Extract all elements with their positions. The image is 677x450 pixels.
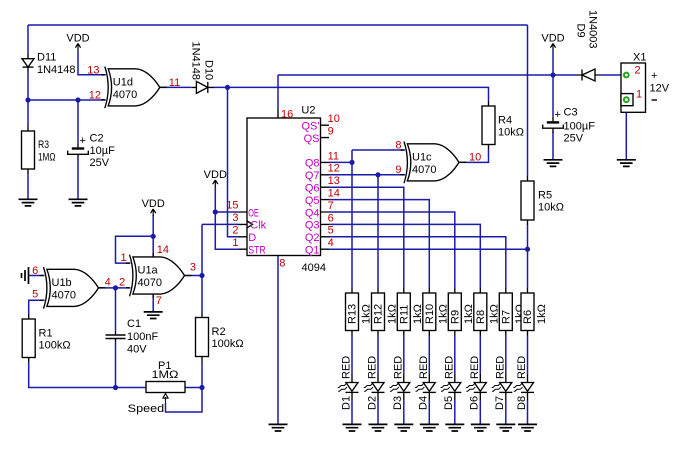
LED D7	[492, 374, 513, 400]
D5 labels	[443, 356, 455, 410]
svg-text:14: 14	[328, 188, 340, 200]
wire Q4 to R9	[329, 212, 455, 288]
D8 labels	[516, 356, 528, 410]
wire feedback to U2 pin D	[228, 87, 239, 236]
wire D5 to ground	[454, 400, 456, 425]
wire OE branch	[215, 211, 238, 213]
svg-text:QS: QS	[304, 133, 320, 145]
svg-text:D6: D6	[469, 396, 481, 410]
VDD symbol top-left	[66, 33, 89, 51]
wire VDD rail	[278, 74, 577, 76]
ground X1	[617, 160, 636, 167]
wire Q1 row	[329, 248, 528, 250]
svg-text:8: 8	[395, 139, 401, 151]
svg-text:U1a: U1a	[138, 265, 159, 277]
resistor R7	[499, 288, 512, 336]
ground D8	[518, 424, 537, 431]
wire R8 to D6	[479, 336, 481, 375]
wire R4 to U1c output	[460, 150, 489, 163]
LED D8	[513, 374, 534, 400]
wire Q3 to R8	[329, 224, 480, 288]
svg-text:12: 12	[89, 89, 101, 101]
wire C2 to ground	[77, 159, 79, 200]
wire Q7 row to U1c pin9	[329, 174, 405, 176]
svg-text:RED: RED	[367, 356, 379, 379]
svg-text:15: 15	[226, 200, 238, 212]
svg-text:100kΩ: 100kΩ	[39, 339, 71, 351]
op-amp U1c XOR gate	[400, 142, 466, 184]
svg-text:1: 1	[120, 252, 126, 264]
svg-text:13: 13	[328, 175, 340, 187]
svg-text:R13: R13	[347, 304, 359, 324]
svg-text:Q6: Q6	[305, 183, 320, 195]
D1 labels	[340, 356, 352, 410]
svg-text:Q1: Q1	[305, 245, 320, 257]
svg-text:1: 1	[232, 237, 238, 249]
wire P1 wiper link	[166, 388, 203, 413]
svg-text:RED: RED	[341, 356, 353, 379]
svg-text:25V: 25V	[90, 157, 110, 169]
svg-text:4070: 4070	[138, 277, 162, 289]
junction	[225, 85, 230, 90]
svg-text:RED: RED	[443, 356, 455, 379]
svg-text:D2: D2	[366, 396, 378, 410]
wire VDD to U1a pin14	[152, 215, 154, 257]
P1 labels	[152, 360, 179, 381]
svg-text:C2: C2	[90, 132, 104, 144]
diode D10	[191, 81, 213, 93]
resistor R10	[423, 288, 436, 336]
R5 labels	[538, 190, 564, 214]
wire VDD to U1d pin13	[78, 51, 106, 75]
svg-text:Q2: Q2	[305, 232, 320, 244]
svg-text:+: +	[651, 70, 657, 82]
svg-text:100nF: 100nF	[127, 331, 158, 343]
svg-text:C1: C1	[127, 318, 141, 330]
svg-text:D8: D8	[516, 396, 528, 410]
wire pin12 row to U1d	[28, 99, 106, 101]
R3 labels	[38, 139, 56, 163]
junction	[375, 172, 380, 177]
svg-text:16: 16	[281, 108, 293, 120]
D6 labels	[469, 356, 481, 410]
wire Clk row	[202, 223, 239, 225]
junction	[349, 160, 354, 165]
svg-text:Q7: Q7	[305, 170, 320, 182]
wire D6 to ground	[479, 400, 481, 425]
svg-text:1N4148: 1N4148	[37, 64, 76, 76]
wire Q2 to R7	[329, 237, 506, 288]
svg-text:R7: R7	[501, 310, 513, 324]
junction	[213, 209, 218, 214]
wire Q8 row	[329, 161, 352, 163]
R13 labels	[347, 304, 373, 324]
R7 labels	[501, 304, 527, 324]
svg-text:100µF: 100µF	[564, 120, 596, 132]
D2 labels	[366, 356, 378, 410]
resistor R5	[521, 176, 534, 225]
svg-text:4: 4	[105, 277, 111, 289]
svg-text:STR: STR	[248, 245, 266, 257]
svg-text:R1: R1	[39, 327, 53, 339]
wire to U1a pin1	[116, 236, 154, 263]
junction	[550, 72, 555, 77]
ground R3	[19, 199, 38, 206]
svg-text:9: 9	[395, 164, 401, 176]
svg-text:D9: D9	[575, 24, 587, 38]
svg-text:100kΩ: 100kΩ	[212, 338, 244, 350]
wire R6 to D8	[527, 336, 529, 375]
wire D7 to ground	[505, 400, 507, 425]
junction	[113, 285, 118, 290]
svg-text:C3: C3	[564, 106, 578, 118]
LED D3	[390, 374, 411, 400]
wire R12 to D2	[377, 336, 379, 375]
wire U1a pin7 to ground	[152, 294, 154, 312]
svg-text:1kΩ: 1kΩ	[536, 304, 548, 324]
wire D4 to ground	[428, 400, 430, 425]
svg-text:10: 10	[469, 151, 481, 163]
svg-text:+: +	[80, 135, 86, 147]
R1 labels	[39, 327, 71, 351]
junction	[525, 247, 530, 252]
wire U2 pin16 riser	[277, 75, 279, 109]
wire R13 to D1	[351, 336, 353, 375]
svg-text:RED: RED	[516, 356, 528, 379]
wire R3 to ground	[27, 174, 29, 199]
junction	[113, 385, 118, 390]
capacitor C3	[543, 109, 564, 133]
R11 labels	[399, 304, 425, 324]
svg-text:40V: 40V	[127, 343, 147, 355]
wire R5 to Q1 node	[527, 225, 529, 249]
svg-text:12: 12	[328, 163, 340, 175]
junction	[151, 234, 156, 239]
svg-text:1N4003: 1N4003	[587, 10, 599, 49]
ground D7	[496, 424, 515, 431]
R6 labels	[522, 304, 548, 324]
svg-text:Q4: Q4	[305, 207, 320, 219]
svg-text:RED: RED	[494, 356, 506, 379]
wire D9 to X1 pin2	[601, 74, 624, 76]
wire P1 right terminal	[185, 387, 202, 389]
LED D5	[441, 374, 462, 400]
R10 labels	[424, 304, 450, 324]
svg-text:6: 6	[328, 212, 334, 224]
VDD symbol at U2	[204, 169, 227, 187]
svg-text:Clk: Clk	[250, 220, 267, 232]
svg-text:10: 10	[328, 113, 340, 125]
connector X1	[621, 63, 646, 112]
wire Q6 to R11	[329, 187, 404, 288]
resistor R4	[482, 101, 495, 150]
R2 labels	[212, 326, 244, 350]
D7 labels	[494, 356, 506, 410]
svg-text:13: 13	[87, 65, 99, 77]
junction	[199, 273, 204, 278]
svg-text:14: 14	[157, 244, 169, 256]
wire ground to U1b pin6	[29, 275, 44, 277]
svg-text:R9: R9	[450, 310, 462, 324]
wire D8 to ground	[527, 400, 529, 425]
svg-text:D4: D4	[418, 396, 430, 410]
svg-text:R8: R8	[475, 310, 487, 324]
wire Q8 to R13	[351, 162, 353, 288]
svg-text:4: 4	[328, 237, 334, 249]
wire D10 cathode to R4	[213, 87, 489, 101]
svg-text:Q8: Q8	[305, 158, 320, 170]
X1 labels	[633, 52, 670, 101]
svg-text:2: 2	[119, 277, 125, 289]
svg-text:2: 2	[232, 225, 238, 237]
svg-text:RED: RED	[469, 356, 481, 379]
wire Q8 to U1c pin8	[352, 150, 405, 162]
wire D11 cathode to R3	[27, 72, 29, 127]
svg-text:U1d: U1d	[113, 76, 133, 88]
wire U1b out to U1a pin2	[99, 287, 131, 289]
wire node to R6	[527, 249, 529, 288]
wire R2 bottom	[201, 362, 203, 388]
wire VDD to C3	[552, 51, 554, 117]
svg-text:7: 7	[328, 200, 334, 212]
junction	[75, 97, 80, 102]
svg-text:11: 11	[169, 77, 180, 89]
junction	[199, 385, 204, 390]
op-amp U1b XOR gate	[40, 267, 106, 309]
svg-text:R11: R11	[399, 305, 411, 324]
wire R9 to D5	[454, 336, 456, 375]
wire bottom rail to P1	[29, 363, 146, 388]
ground U2 pin8	[269, 424, 288, 431]
resistor R3	[22, 126, 35, 174]
diode D11	[22, 54, 34, 71]
svg-text:VDD: VDD	[66, 33, 89, 45]
svg-text:4070: 4070	[113, 89, 137, 101]
potentiometer P1	[146, 382, 185, 404]
svg-text:5: 5	[328, 225, 334, 237]
junction	[25, 97, 30, 102]
svg-text:12V: 12V	[650, 83, 670, 95]
svg-text:R6: R6	[522, 310, 534, 324]
wire U1a output	[185, 275, 203, 277]
ground D3	[394, 424, 413, 431]
diode D9	[577, 69, 601, 81]
wire U2 pin8 to ground	[277, 256, 279, 425]
svg-text:Q5: Q5	[305, 195, 320, 207]
wire Q7 to R12	[377, 175, 379, 288]
ground D5	[445, 424, 464, 431]
svg-text:X1: X1	[633, 52, 646, 64]
svg-text:R2: R2	[212, 326, 226, 338]
svg-text:3: 3	[232, 212, 238, 224]
D3 labels	[392, 356, 404, 410]
svg-text:1N4148: 1N4148	[189, 42, 201, 81]
svg-text:D10: D10	[203, 60, 215, 80]
resistor R1	[22, 314, 35, 363]
svg-text:VDD: VDD	[204, 169, 227, 181]
LED D6	[466, 374, 487, 400]
svg-text:D: D	[248, 232, 256, 244]
wire VDD to U2 STR	[215, 187, 238, 250]
svg-text:D11: D11	[37, 51, 56, 63]
svg-text:+: +	[555, 109, 561, 121]
svg-text:VDD: VDD	[541, 33, 564, 45]
ground D1	[343, 424, 362, 431]
wire Q5 to R10	[329, 200, 429, 288]
R9 labels	[450, 304, 476, 324]
LED D4	[415, 374, 436, 400]
ground D4	[420, 424, 439, 431]
svg-text:3: 3	[190, 261, 196, 273]
wire C3 to ground	[552, 132, 554, 160]
op-amp U1d XOR gate	[101, 67, 167, 109]
svg-text:R5: R5	[538, 190, 552, 202]
wire D2 to ground	[377, 400, 379, 425]
resistor R8	[474, 288, 487, 336]
svg-text:D3: D3	[392, 396, 404, 410]
wire D1 to ground	[351, 400, 353, 425]
svg-text:1MΩ: 1MΩ	[38, 151, 56, 163]
svg-text:10µF: 10µF	[90, 145, 116, 157]
U1a pin14 and pin7 stubs	[152, 253, 154, 297]
svg-text:2: 2	[635, 65, 641, 77]
svg-text:R3: R3	[38, 139, 49, 151]
wire C2 top lead	[77, 100, 79, 143]
ground U1b pin6	[22, 267, 29, 284]
wire D11 anode riser	[27, 25, 29, 55]
svg-text:RED: RED	[418, 356, 430, 379]
svg-text:4070: 4070	[412, 164, 436, 176]
C2 labels	[90, 132, 116, 169]
svg-text:6: 6	[32, 265, 38, 277]
ground U1a pin7	[144, 312, 163, 319]
svg-text:4070: 4070	[52, 289, 76, 301]
svg-text:D7: D7	[494, 396, 506, 410]
svg-text:1kΩ: 1kΩ	[386, 304, 398, 324]
capacitor C1	[106, 331, 126, 343]
U2 pin numbers	[226, 108, 340, 269]
svg-text:R10: R10	[424, 304, 436, 324]
svg-text:8: 8	[279, 257, 285, 269]
resistor R13	[346, 288, 359, 336]
U2 pin names	[248, 121, 319, 257]
svg-text:RED: RED	[392, 356, 404, 379]
svg-text:9: 9	[328, 126, 334, 138]
wire top feedback rail	[28, 24, 528, 26]
svg-text:Q3: Q3	[305, 220, 320, 232]
wire Clk riser to R2	[201, 224, 203, 312]
C1 labels	[127, 318, 158, 355]
svg-text:VDD: VDD	[142, 198, 165, 210]
wire top rail to R5	[527, 25, 529, 176]
wire R11 to D3	[403, 336, 405, 375]
svg-text:11: 11	[328, 150, 339, 162]
capacitor C2	[68, 135, 89, 159]
ground D6	[471, 424, 490, 431]
svg-text:U2: U2	[301, 105, 315, 117]
VDD symbol at U1a	[142, 198, 165, 216]
svg-text:Speed: Speed	[128, 403, 165, 415]
LED D2	[364, 374, 385, 400]
wire U1d output to D10	[160, 86, 192, 88]
wire R7 to D7	[505, 336, 507, 375]
resistor R12	[372, 288, 385, 336]
svg-text:7: 7	[156, 295, 162, 307]
ground D2	[369, 424, 388, 431]
wire X1 pin1 to ground	[625, 103, 627, 160]
wire D3 to ground	[403, 400, 405, 425]
op-amp U1a XOR gate	[126, 255, 192, 297]
ground C3	[544, 160, 563, 167]
R12 labels	[373, 304, 399, 324]
wire C1 top lead	[115, 288, 117, 331]
R8 labels	[475, 304, 501, 324]
svg-text:R4: R4	[498, 114, 512, 126]
R4 labels	[498, 114, 524, 138]
svg-text:10kΩ: 10kΩ	[498, 126, 524, 138]
D4 labels	[418, 356, 430, 410]
D11 labels	[37, 51, 76, 75]
svg-text:QS': QS'	[302, 121, 320, 133]
svg-text:U1b: U1b	[52, 277, 72, 289]
svg-text:1: 1	[636, 89, 642, 101]
VDD symbol right	[541, 33, 564, 51]
svg-text:OE: OE	[248, 207, 259, 219]
IC U2 4094	[239, 109, 330, 256]
wire R10 to D4	[428, 336, 430, 375]
resistor R11	[397, 288, 410, 336]
svg-text:4094: 4094	[302, 262, 326, 274]
svg-text:1kΩ: 1kΩ	[360, 304, 372, 324]
resistor R2	[196, 313, 209, 362]
svg-text:D1: D1	[340, 396, 352, 410]
wire C1 bottom lead	[115, 343, 117, 388]
svg-text:10kΩ: 10kΩ	[538, 202, 564, 214]
svg-text:D5: D5	[443, 396, 455, 410]
svg-text:R12: R12	[373, 304, 385, 324]
LED D1	[338, 374, 359, 400]
ground C2	[69, 199, 88, 206]
resistor R9	[448, 288, 461, 336]
svg-text:5: 5	[32, 289, 38, 301]
svg-text:25V: 25V	[564, 132, 584, 144]
C3 labels	[564, 106, 596, 144]
svg-text:1MΩ: 1MΩ	[152, 369, 179, 381]
resistor R6	[521, 288, 534, 336]
svg-text:U1c: U1c	[412, 151, 432, 163]
wire U1b pin5 to R1	[29, 300, 45, 314]
